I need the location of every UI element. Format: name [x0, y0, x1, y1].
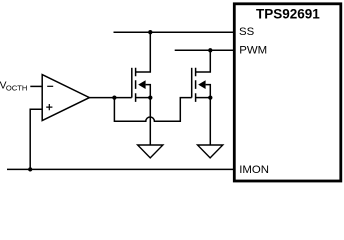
transistor M1 channel bar	[135, 68, 137, 102]
wire non-inverting input	[30, 109, 42, 169]
junction dot SS/M1 drain	[148, 30, 152, 34]
wire VOCTH to inverting input	[30, 85, 42, 87]
ground G2	[198, 145, 223, 158]
junction dot M1 source/body	[148, 95, 152, 99]
transistor M2 channel bar	[195, 68, 197, 102]
ground G1	[138, 145, 163, 158]
transistor M2 source lead	[196, 97, 211, 99]
wire PWM net	[175, 49, 235, 51]
svg-text:OCTH: OCTH	[6, 84, 28, 93]
wire output branch to M2 gate (with hop)	[114, 98, 191, 122]
transistor M1 gate bar	[131, 68, 133, 98]
junction dot M2 source/body	[208, 95, 212, 99]
svg-text:IMON: IMON	[239, 164, 269, 176]
wire M1 source to ground	[149, 98, 151, 145]
wire M2 drain to PWM	[196, 50, 211, 72]
transistor M2 gate bar	[191, 68, 193, 98]
wire M2 source to ground	[209, 98, 211, 145]
wire IMON net	[7, 168, 235, 170]
transistor M1 body arrow	[138, 80, 150, 97]
svg-text:SS: SS	[239, 26, 255, 38]
wire op-amp output to M1 gate	[89, 97, 131, 99]
svg-text:PWM: PWM	[239, 45, 267, 57]
transistor M2 body arrow	[198, 80, 210, 97]
wire SS net	[114, 31, 236, 33]
IC U1 TPS92691 box	[234, 4, 340, 181]
junction dot output branch	[112, 95, 116, 99]
svg-text:TPS92691: TPS92691	[256, 7, 320, 22]
op-amp U2	[42, 75, 89, 121]
junction dot PWM/M2 drain	[208, 48, 212, 52]
transistor M1 source lead	[136, 97, 151, 99]
junction dot IMON/non-inverting input	[28, 167, 32, 171]
label VOCTH	[0, 80, 27, 92]
wire M1 drain to SS	[136, 32, 151, 72]
